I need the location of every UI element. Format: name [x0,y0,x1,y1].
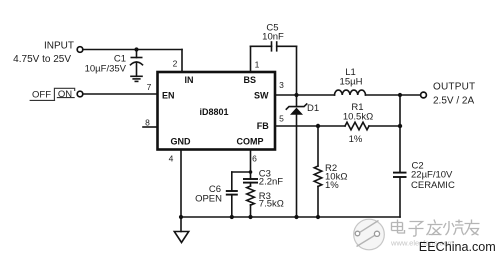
svg-text:COMP: COMP [237,137,264,147]
svg-text:2.5V / 2A: 2.5V / 2A [433,95,474,106]
svg-text:6: 6 [252,154,257,164]
svg-text:IN: IN [185,75,194,85]
svg-text:4: 4 [169,154,174,164]
svg-text:5: 5 [279,113,284,123]
svg-text:10nF: 10nF [262,32,284,43]
svg-text:GND: GND [171,137,192,147]
svg-text:INPUT: INPUT [44,40,74,51]
svg-text:EN: EN [162,91,175,101]
svg-text:OPEN: OPEN [195,194,222,205]
svg-text:OUTPUT: OUTPUT [433,82,475,93]
svg-text:ON: ON [58,89,72,100]
svg-text:CERAMIC: CERAMIC [411,180,455,191]
svg-text:BS: BS [244,75,257,85]
svg-text:3: 3 [279,80,284,90]
svg-text:22µF/10V: 22µF/10V [411,170,453,181]
svg-text:7: 7 [147,82,152,92]
svg-text:7.5kΩ: 7.5kΩ [259,198,284,209]
svg-text:2.2nF: 2.2nF [259,176,283,187]
svg-text:SW: SW [254,91,269,101]
svg-text:OFF: OFF [32,89,51,100]
svg-text:8: 8 [145,117,150,127]
svg-text:iD8801: iD8801 [199,107,228,117]
svg-text:1%: 1% [349,134,363,145]
svg-text:D1: D1 [307,103,319,114]
svg-text:FB: FB [257,121,269,131]
svg-text:15µH: 15µH [340,77,363,88]
svg-text:1: 1 [255,60,260,70]
svg-text:4.75V to 25V: 4.75V to 25V [13,54,71,65]
svg-text:10µF/35V: 10µF/35V [85,63,127,74]
svg-text:1%: 1% [325,180,339,191]
svg-text:2: 2 [173,59,178,69]
svg-text:10.5kΩ: 10.5kΩ [343,112,373,123]
svg-text:EEChina.com: EEChina.com [419,240,496,254]
